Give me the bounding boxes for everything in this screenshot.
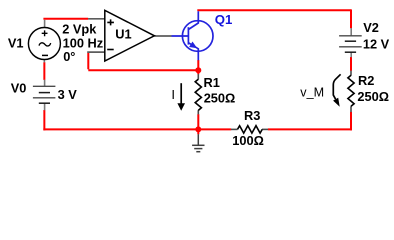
svg-text:U1: U1: [115, 27, 131, 42]
svg-text:V0: V0: [11, 81, 27, 96]
svg-text:R1: R1: [204, 75, 220, 90]
svg-text:v_M: v_M: [300, 85, 324, 99]
svg-text:250Ω: 250Ω: [204, 91, 236, 106]
svg-text:12 V: 12 V: [363, 36, 390, 51]
svg-text:I: I: [171, 87, 175, 102]
svg-text:R3: R3: [244, 108, 260, 123]
svg-text:3 V: 3 V: [58, 87, 78, 102]
svg-text:Q1: Q1: [215, 12, 233, 27]
svg-text:100Ω: 100Ω: [232, 133, 264, 148]
svg-text:V2: V2: [363, 20, 379, 35]
svg-text:R2: R2: [358, 73, 374, 88]
svg-text:250Ω: 250Ω: [357, 89, 389, 104]
svg-text:0°: 0°: [63, 49, 75, 64]
svg-text:2 Vpk: 2 Vpk: [62, 22, 97, 37]
svg-text:V1: V1: [8, 36, 24, 51]
